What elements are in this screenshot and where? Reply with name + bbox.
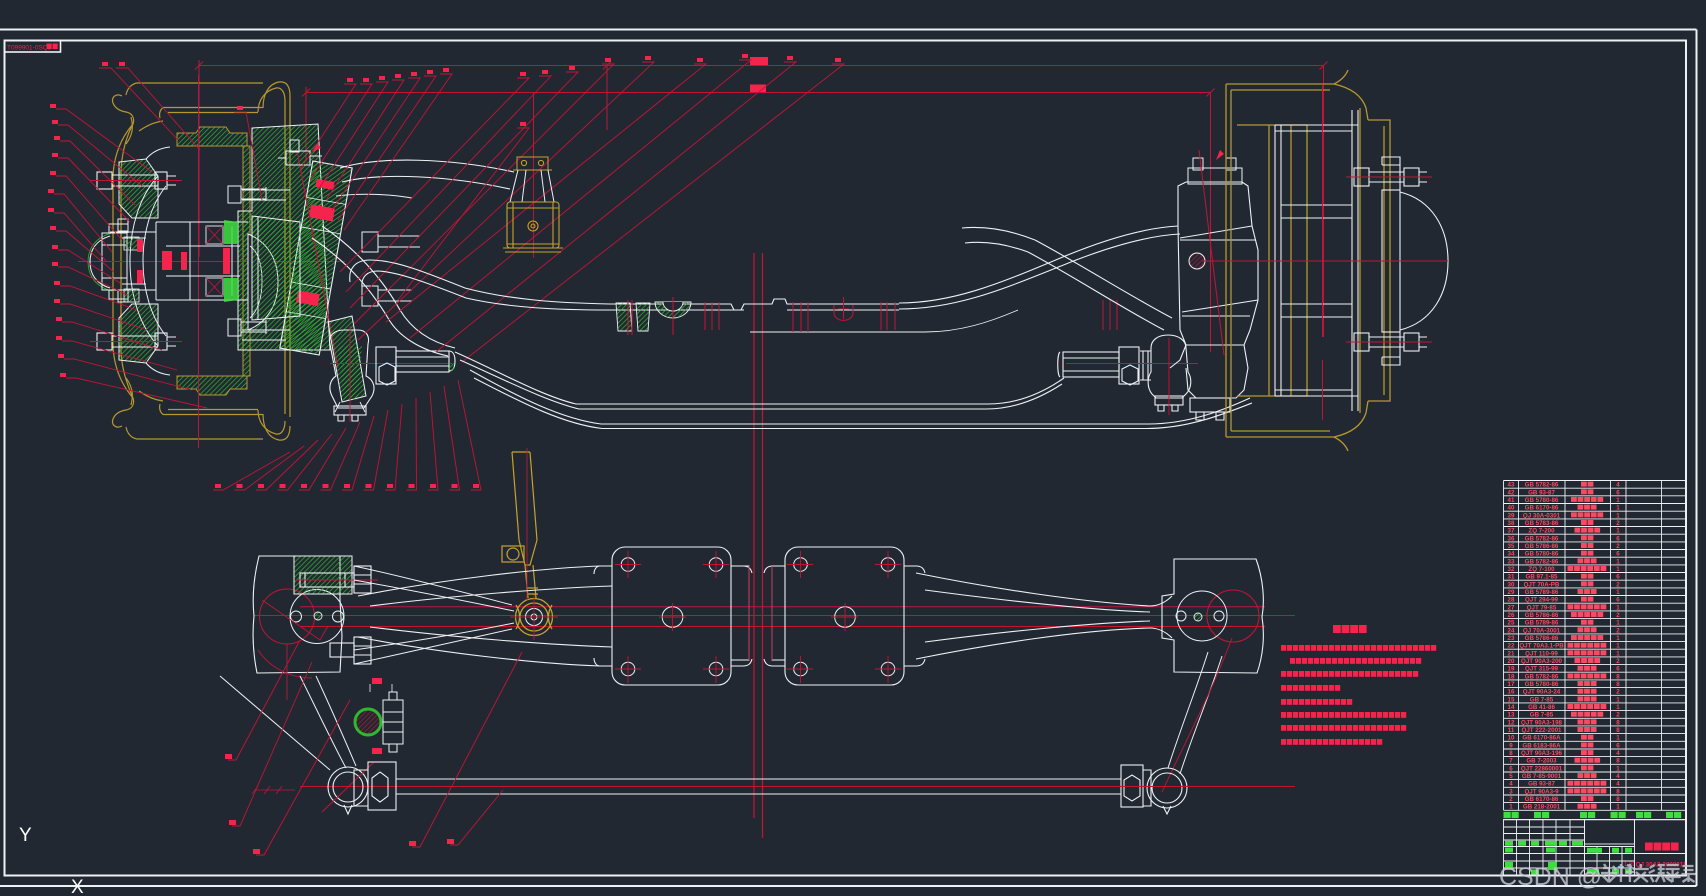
svg-text:20: 20 (1508, 658, 1515, 665)
tie rod end ball housing left (upper view) (330, 330, 374, 421)
right knuckle circles (1207, 590, 1259, 642)
outer frame right line (1696, 30, 1698, 887)
BOM table red entries (1508, 482, 1621, 811)
svg-text:1: 1 (1616, 804, 1620, 811)
dimension value block 2 (750, 85, 766, 93)
beam neck between plates (731, 566, 785, 660)
svg-text:GB 5783-86: GB 5783-86 (1525, 520, 1559, 527)
svg-text:8: 8 (1616, 719, 1620, 726)
left knuckle plate (bottom view) (253, 556, 342, 673)
svg-text:2: 2 (1616, 689, 1620, 696)
svg-text:41: 41 (1508, 497, 1515, 504)
outer frame top line (0, 29, 1697, 31)
svg-text:7: 7 (1509, 758, 1513, 765)
svg-text:9: 9 (1509, 742, 1513, 749)
weld symbol on beam (834, 297, 853, 320)
svg-text:1: 1 (1616, 505, 1620, 512)
svg-text:ZQ 7-100: ZQ 7-100 (1528, 566, 1555, 573)
svg-text:GB 5780-86: GB 5780-86 (1525, 681, 1559, 688)
shock absorber red centerline (533, 150, 535, 258)
spring seat plate left (594, 547, 752, 685)
svg-text:32: 32 (1508, 566, 1515, 573)
svg-text:28: 28 (1508, 597, 1515, 604)
svg-text:11: 11 (1508, 727, 1515, 734)
right wheel bolts bottom (1354, 333, 1427, 351)
svg-text:3: 3 (1509, 788, 1513, 795)
knuckle yoke white lines (242, 190, 290, 340)
UCS icon X axis line (24, 889, 68, 891)
svg-text:6: 6 (1616, 574, 1620, 581)
svg-text:6: 6 (1616, 742, 1620, 749)
BOM table name blobs (1581, 482, 1587, 487)
right knuckle body (1178, 182, 1258, 345)
svg-text:GB 5780-86: GB 5780-86 (1525, 551, 1559, 558)
left wheel tire sidewall (yellow) (113, 95, 163, 427)
title block grid (1504, 820, 1687, 876)
dimension line overall width top (195, 60, 1328, 352)
tapered bearing top (white box red X) (206, 226, 223, 244)
shock strut lower view (yellow) (502, 452, 538, 598)
svg-text:4: 4 (1616, 750, 1620, 757)
svg-text:25: 25 (1508, 620, 1515, 627)
watermark CJK fake glyphs (1601, 864, 1696, 882)
svg-text:GB 5780-86: GB 5780-86 (1525, 497, 1559, 504)
svg-text:Y: Y (19, 825, 32, 846)
svg-text:27: 27 (1508, 604, 1515, 611)
svg-text:2: 2 (1616, 612, 1620, 619)
svg-text:QJ 30A-0301: QJ 30A-0301 (1523, 512, 1561, 519)
svg-text:2: 2 (1616, 712, 1620, 719)
svg-text:GB 6170-86A: GB 6170-86A (1522, 735, 1561, 742)
left rim flange hump bottom (yellow) (258, 410, 290, 440)
left rim flange hump top (yellow) (258, 82, 290, 417)
hub bell lower (green hatch) (119, 304, 158, 363)
left tie rod end circle (328, 767, 368, 814)
svg-text:1: 1 (1616, 704, 1620, 711)
svg-text:2: 2 (1616, 627, 1620, 634)
svg-text:31: 31 (1508, 574, 1515, 581)
dimension value block 1 (750, 57, 768, 65)
leader fan bottom labels row (213, 380, 481, 490)
svg-text:22: 22 (1508, 643, 1515, 650)
svg-text:GB 7-2003: GB 7-2003 (1526, 758, 1557, 765)
svg-text:8: 8 (1616, 727, 1620, 734)
tie rod tube (bottom view) (396, 779, 1121, 794)
svg-text:6: 6 (1616, 551, 1620, 558)
svg-text:36: 36 (1508, 535, 1515, 542)
neck red verticals (749, 566, 772, 660)
right tie rod clamp (1121, 765, 1151, 807)
tie rod clamp left (376, 347, 455, 385)
right brake drum white (1275, 110, 1358, 411)
BOM header row (1504, 819, 1687, 821)
UCS icon Y axis line (19, 845, 21, 884)
BOM header green labels (1504, 812, 1511, 818)
left knuckle lower fork (220, 676, 356, 770)
svg-text:42: 42 (1508, 489, 1515, 496)
svg-text:18: 18 (1508, 673, 1515, 680)
left knuckle hub circle white (290, 590, 344, 644)
shock absorber body (yellow) (503, 202, 563, 252)
kingpin axis red line (297, 150, 338, 368)
right tie rod red centerlines (1066, 363, 1198, 365)
beam taper right (bottom view) (916, 573, 1172, 659)
drag arm to tie rod end (312, 226, 455, 356)
wheel stud red line upper (90, 180, 182, 182)
left knuckle grease fitting (312, 143, 321, 152)
left knuckle kingpin circle red (260, 589, 315, 644)
ball stud green hatch (338, 346, 362, 400)
steering knuckle center green block (252, 216, 300, 320)
svg-text:35: 35 (1508, 543, 1515, 550)
svg-text:4: 4 (1616, 773, 1620, 780)
axle beam hairpin loop (350, 260, 610, 310)
svg-text:6: 6 (1616, 489, 1620, 496)
svg-text:1: 1 (1616, 620, 1620, 627)
UCS icon origin square (14, 880, 24, 890)
right tie rod clamp (1119, 347, 1151, 385)
tie rod red centerline (300, 786, 1295, 788)
svg-text:40: 40 (1508, 505, 1515, 512)
svg-text:GB 93-87: GB 93-87 (1528, 489, 1555, 496)
section A-A marks (372, 678, 382, 754)
svg-text:26: 26 (1508, 612, 1515, 619)
plate right hole crosshairs (787, 551, 901, 683)
axle beam web line (750, 310, 1018, 332)
left tie rod clamp (354, 762, 396, 810)
beam slot 2 green (636, 303, 650, 331)
svg-text:19: 19 (1508, 666, 1515, 673)
right knuckle plate (bottom view) (1162, 559, 1263, 673)
axle beam top edge (607, 226, 1180, 310)
svg-text:2: 2 (1616, 543, 1620, 550)
svg-text:8: 8 (1616, 796, 1620, 803)
svg-text:GB 6183-86A: GB 6183-86A (1522, 742, 1561, 749)
svg-text:QJT 70A3.1-PB: QJT 70A3.1-PB (1519, 643, 1564, 650)
svg-text:1: 1 (1616, 589, 1620, 596)
svg-text:2: 2 (1616, 658, 1620, 665)
svg-text:QJT 110-99: QJT 110-99 (1525, 650, 1558, 657)
svg-text:QJT 79-85: QJT 79-85 (1527, 604, 1557, 611)
svg-text:33: 33 (1508, 558, 1515, 565)
svg-text:GB 5789-86: GB 5789-86 (1525, 589, 1559, 596)
plate right holes (794, 558, 895, 676)
technical requirements body (1281, 645, 1286, 651)
svg-text:1: 1 (1616, 512, 1620, 519)
svg-text:2: 2 (1616, 520, 1620, 527)
svg-text:6: 6 (1616, 535, 1620, 542)
svg-text:GB 5782-86: GB 5782-86 (1525, 535, 1559, 542)
bottom leader labels (225, 754, 454, 854)
svg-text:QJT 294-99: QJT 294-99 (1525, 597, 1559, 604)
leader fan left labels (54, 109, 207, 408)
svg-text:QJT 90A3-24: QJT 90A3-24 (1523, 689, 1561, 696)
section A-A part green circle (355, 709, 381, 735)
shock strut red centerline (526, 448, 528, 600)
bottom view red horizontal centerlines (254, 607, 1295, 627)
spring seat plate right (764, 547, 925, 685)
right steering arm curves (962, 228, 1172, 331)
svg-text:CSDN @: CSDN @ (1499, 863, 1602, 891)
rim band cross-section bottom (green hatch) (177, 376, 247, 395)
svg-text:QJT 222-2001: QJT 222-2001 (1522, 727, 1562, 734)
svg-text:GB 5782-86: GB 5782-86 (1525, 482, 1559, 489)
svg-text:GB 97.1-85: GB 97.1-85 (1526, 574, 1559, 581)
svg-text:1: 1 (1616, 566, 1620, 573)
svg-text:8: 8 (1616, 681, 1620, 688)
svg-text:17: 17 (1508, 681, 1515, 688)
wheel spindle (white) (110, 222, 248, 300)
svg-text:GB 5789-86: GB 5789-86 (1525, 620, 1559, 627)
svg-text:1: 1 (1616, 604, 1620, 611)
brake anchor pin top (228, 186, 266, 203)
svg-text:15: 15 (1508, 696, 1515, 703)
right kingpin axis red (1199, 150, 1224, 355)
shock bracket legs (white) (510, 170, 554, 202)
svg-text:37: 37 (1508, 528, 1515, 535)
right knuckle top cap (1188, 158, 1242, 184)
title block red title (1645, 843, 1653, 851)
svg-text:GB 6170-86: GB 6170-86 (1525, 796, 1559, 803)
left knuckle small holes (291, 611, 302, 622)
svg-text:GB 5786-86: GB 5786-86 (1525, 635, 1559, 642)
svg-text:1: 1 (1616, 497, 1620, 504)
svg-text:29: 29 (1508, 589, 1515, 596)
bearing races bright green (224, 220, 238, 244)
svg-text:GB 6170-86: GB 6170-86 (1525, 505, 1559, 512)
right hub flange (1382, 157, 1400, 365)
left knuckle red leader arcs (262, 600, 328, 640)
svg-text:8: 8 (1616, 673, 1620, 680)
lower bolt (bottom view) (330, 637, 371, 664)
svg-text:1: 1 (1616, 528, 1620, 535)
steering arm fork upper (354, 566, 514, 664)
svg-text:24: 24 (1508, 627, 1515, 634)
svg-text:QJT 90A3-196: QJT 90A3-196 (1521, 750, 1562, 757)
svg-text:QJT 90A3-200: QJT 90A3-200 (1521, 658, 1562, 665)
svg-text:GB 5786-86: GB 5786-86 (1525, 543, 1559, 550)
castle nut (102, 224, 146, 299)
svg-text:14: 14 (1508, 704, 1515, 711)
svg-text:GB 93-87: GB 93-87 (1528, 781, 1555, 788)
kingpin circle right (1189, 253, 1205, 269)
small dim marks near tie rod left (252, 786, 295, 794)
tapered bearing bottom (206, 278, 223, 296)
svg-text:10: 10 (1508, 735, 1515, 742)
svg-text:6: 6 (1616, 597, 1620, 604)
right diagonal red line (1162, 638, 1232, 792)
hub dust cap dome (90, 236, 110, 288)
section part bracket (383, 692, 403, 752)
right hub dome (1400, 192, 1448, 330)
svg-text:1: 1 (1616, 735, 1620, 742)
svg-text:2: 2 (1509, 796, 1513, 803)
svg-text:GB 5782-86: GB 5782-86 (1525, 558, 1559, 565)
wheel stud bolt lower (97, 333, 176, 350)
right wheel bolt red line top (1346, 176, 1432, 178)
beam red tick marks (628, 297, 1117, 335)
green lug with bolt (bottom view) (294, 556, 352, 594)
svg-text:1: 1 (1616, 635, 1620, 642)
right wheel rim (yellow) (1226, 70, 1390, 451)
right knuckle lower arm (1170, 345, 1248, 420)
beam slot 1 green (616, 303, 632, 331)
svg-text:5: 5 (1509, 773, 1513, 780)
leader fan top labels (99, 68, 452, 230)
svg-text:21: 21 (1508, 650, 1515, 657)
cotter pin below ball (335, 402, 365, 412)
ball joint red cross (510, 594, 558, 640)
right wheel red crosshair (1202, 84, 1448, 420)
svg-text:4: 4 (1509, 781, 1513, 788)
svg-text:GB 218-2001: GB 218-2001 (1523, 804, 1561, 811)
svg-text:6: 6 (1509, 765, 1513, 772)
svg-text:43: 43 (1508, 482, 1515, 489)
drag link ball joint (yellow) (516, 599, 553, 636)
steering arm upper (to shock bracket) (336, 160, 514, 198)
left tie rod end red diagonal (322, 762, 374, 812)
backing plate bolt mid-upper (118, 219, 128, 302)
grease fitting red (1216, 150, 1224, 160)
right tie rod end circle (1147, 768, 1187, 814)
lug bolt shaft (300, 566, 371, 593)
rim barrel vertical (green hatch, yellow outline) (243, 146, 250, 376)
hub bell white arcs (130, 147, 170, 375)
svg-text:T099901-0SQJ: T099901-0SQJ (7, 45, 51, 52)
beam U-bolt seat green (655, 302, 691, 318)
svg-text:GB 7-85: GB 7-85 (1530, 712, 1554, 719)
svg-text:QJT 90A3-9: QJT 90A3-9 (1524, 788, 1559, 795)
svg-text:ZQ 7-200: ZQ 7-200 (1528, 528, 1555, 535)
leader fan left label marks (48, 104, 66, 377)
title label box top-left (5, 41, 61, 53)
brake drum mass (green hatch) (238, 124, 330, 350)
right tie rod tube (1058, 352, 1119, 377)
svg-text:QJT 90A3-198: QJT 90A3-198 (1521, 719, 1562, 726)
svg-text:4: 4 (1616, 781, 1620, 788)
lug bolt red line (296, 579, 378, 581)
svg-text:39: 39 (1508, 512, 1515, 519)
right ball housing (1148, 335, 1191, 411)
vertical centerline pair through both views (754, 253, 763, 838)
svg-text:8: 8 (1616, 788, 1620, 795)
right wheel bolt red line bottom (1346, 341, 1432, 343)
ball joint inner white (526, 609, 543, 626)
watermark CSDN (1499, 863, 1602, 891)
svg-text:23: 23 (1508, 635, 1515, 642)
svg-text:QJT 70A-PB: QJT 70A-PB (1524, 581, 1560, 588)
tube end green sliver (448, 362, 455, 372)
technical requirements title (1333, 625, 1341, 633)
svg-text:GB 7-85-9001: GB 7-85-9001 (1522, 773, 1562, 780)
svg-text:QJT 22860001: QJT 22860001 (1521, 765, 1563, 772)
svg-text:QJ 70A-3001: QJ 70A-3001 (1523, 627, 1561, 634)
kingpin top cap (278, 140, 322, 165)
left hub red centerline horizontal (78, 261, 345, 263)
bottom leader lines (228, 640, 522, 855)
svg-text:1: 1 (1616, 765, 1620, 772)
brake anchor bolt right upper (362, 232, 420, 252)
svg-text:6: 6 (1616, 666, 1620, 673)
svg-text:8: 8 (1616, 758, 1620, 765)
svg-text:GB 5786-86: GB 5786-86 (1525, 612, 1559, 619)
right wheel bolts top (1354, 168, 1427, 186)
svg-text:1: 1 (1509, 804, 1513, 811)
beam left taper (bottom view) (358, 566, 612, 666)
svg-text:X: X (71, 877, 84, 896)
brake anchor pin bottom (228, 319, 266, 336)
svg-text:GB 7-85: GB 7-85 (1530, 696, 1554, 703)
axle seals red blocks (137, 239, 230, 283)
left knuckle center pin (314, 612, 322, 620)
outer frame bottom line (0, 885, 1697, 887)
svg-text:4: 4 (1616, 482, 1620, 489)
wheel stud bolt upper (97, 172, 176, 189)
svg-text:30: 30 (1508, 581, 1515, 588)
svg-text:2: 2 (1616, 581, 1620, 588)
svg-text:GB 5782-86: GB 5782-86 (1525, 673, 1559, 680)
svg-text:1: 1 (1616, 650, 1620, 657)
kingpin strut (green hatched, tilted) (280, 161, 352, 355)
svg-text:1: 1 (1616, 643, 1620, 650)
svg-text:12: 12 (1508, 719, 1515, 726)
hub nut green bits (124, 237, 139, 250)
left wheel red centerline vertical (198, 75, 200, 448)
left rim outer surface (yellow) (126, 83, 263, 439)
plate left holes (621, 558, 723, 676)
plate left hole crosshairs (615, 551, 729, 683)
svg-text:1: 1 (1616, 696, 1620, 703)
leader fan upper-right labels (340, 60, 844, 362)
axle beam bottom edge (455, 352, 1252, 429)
svg-text:8: 8 (1509, 750, 1513, 757)
svg-text:16: 16 (1508, 689, 1515, 696)
shock absorber top bracket (yellow) (513, 157, 552, 170)
title block green cells (1505, 841, 1632, 875)
svg-text:QJT 315-99: QJT 315-99 (1525, 666, 1559, 673)
svg-text:34: 34 (1508, 551, 1515, 558)
brake anchor bolt right lower (362, 286, 412, 306)
svg-text:GB 41-86: GB 41-86 (1528, 704, 1555, 711)
tie rod arm vertical (green hatched) (328, 316, 366, 402)
rim band cross-section top (green hatch) (177, 127, 247, 146)
BOM parts table grid (1504, 481, 1687, 811)
hub bell upper (green hatch) (119, 159, 158, 218)
svg-text:1: 1 (1616, 558, 1620, 565)
wheel stud red line lower (90, 341, 182, 343)
svg-text:38: 38 (1508, 520, 1515, 527)
tie rod end red centerlines (330, 363, 452, 365)
svg-text:13: 13 (1508, 712, 1515, 719)
right knuckle diagonal arm (1168, 652, 1222, 774)
